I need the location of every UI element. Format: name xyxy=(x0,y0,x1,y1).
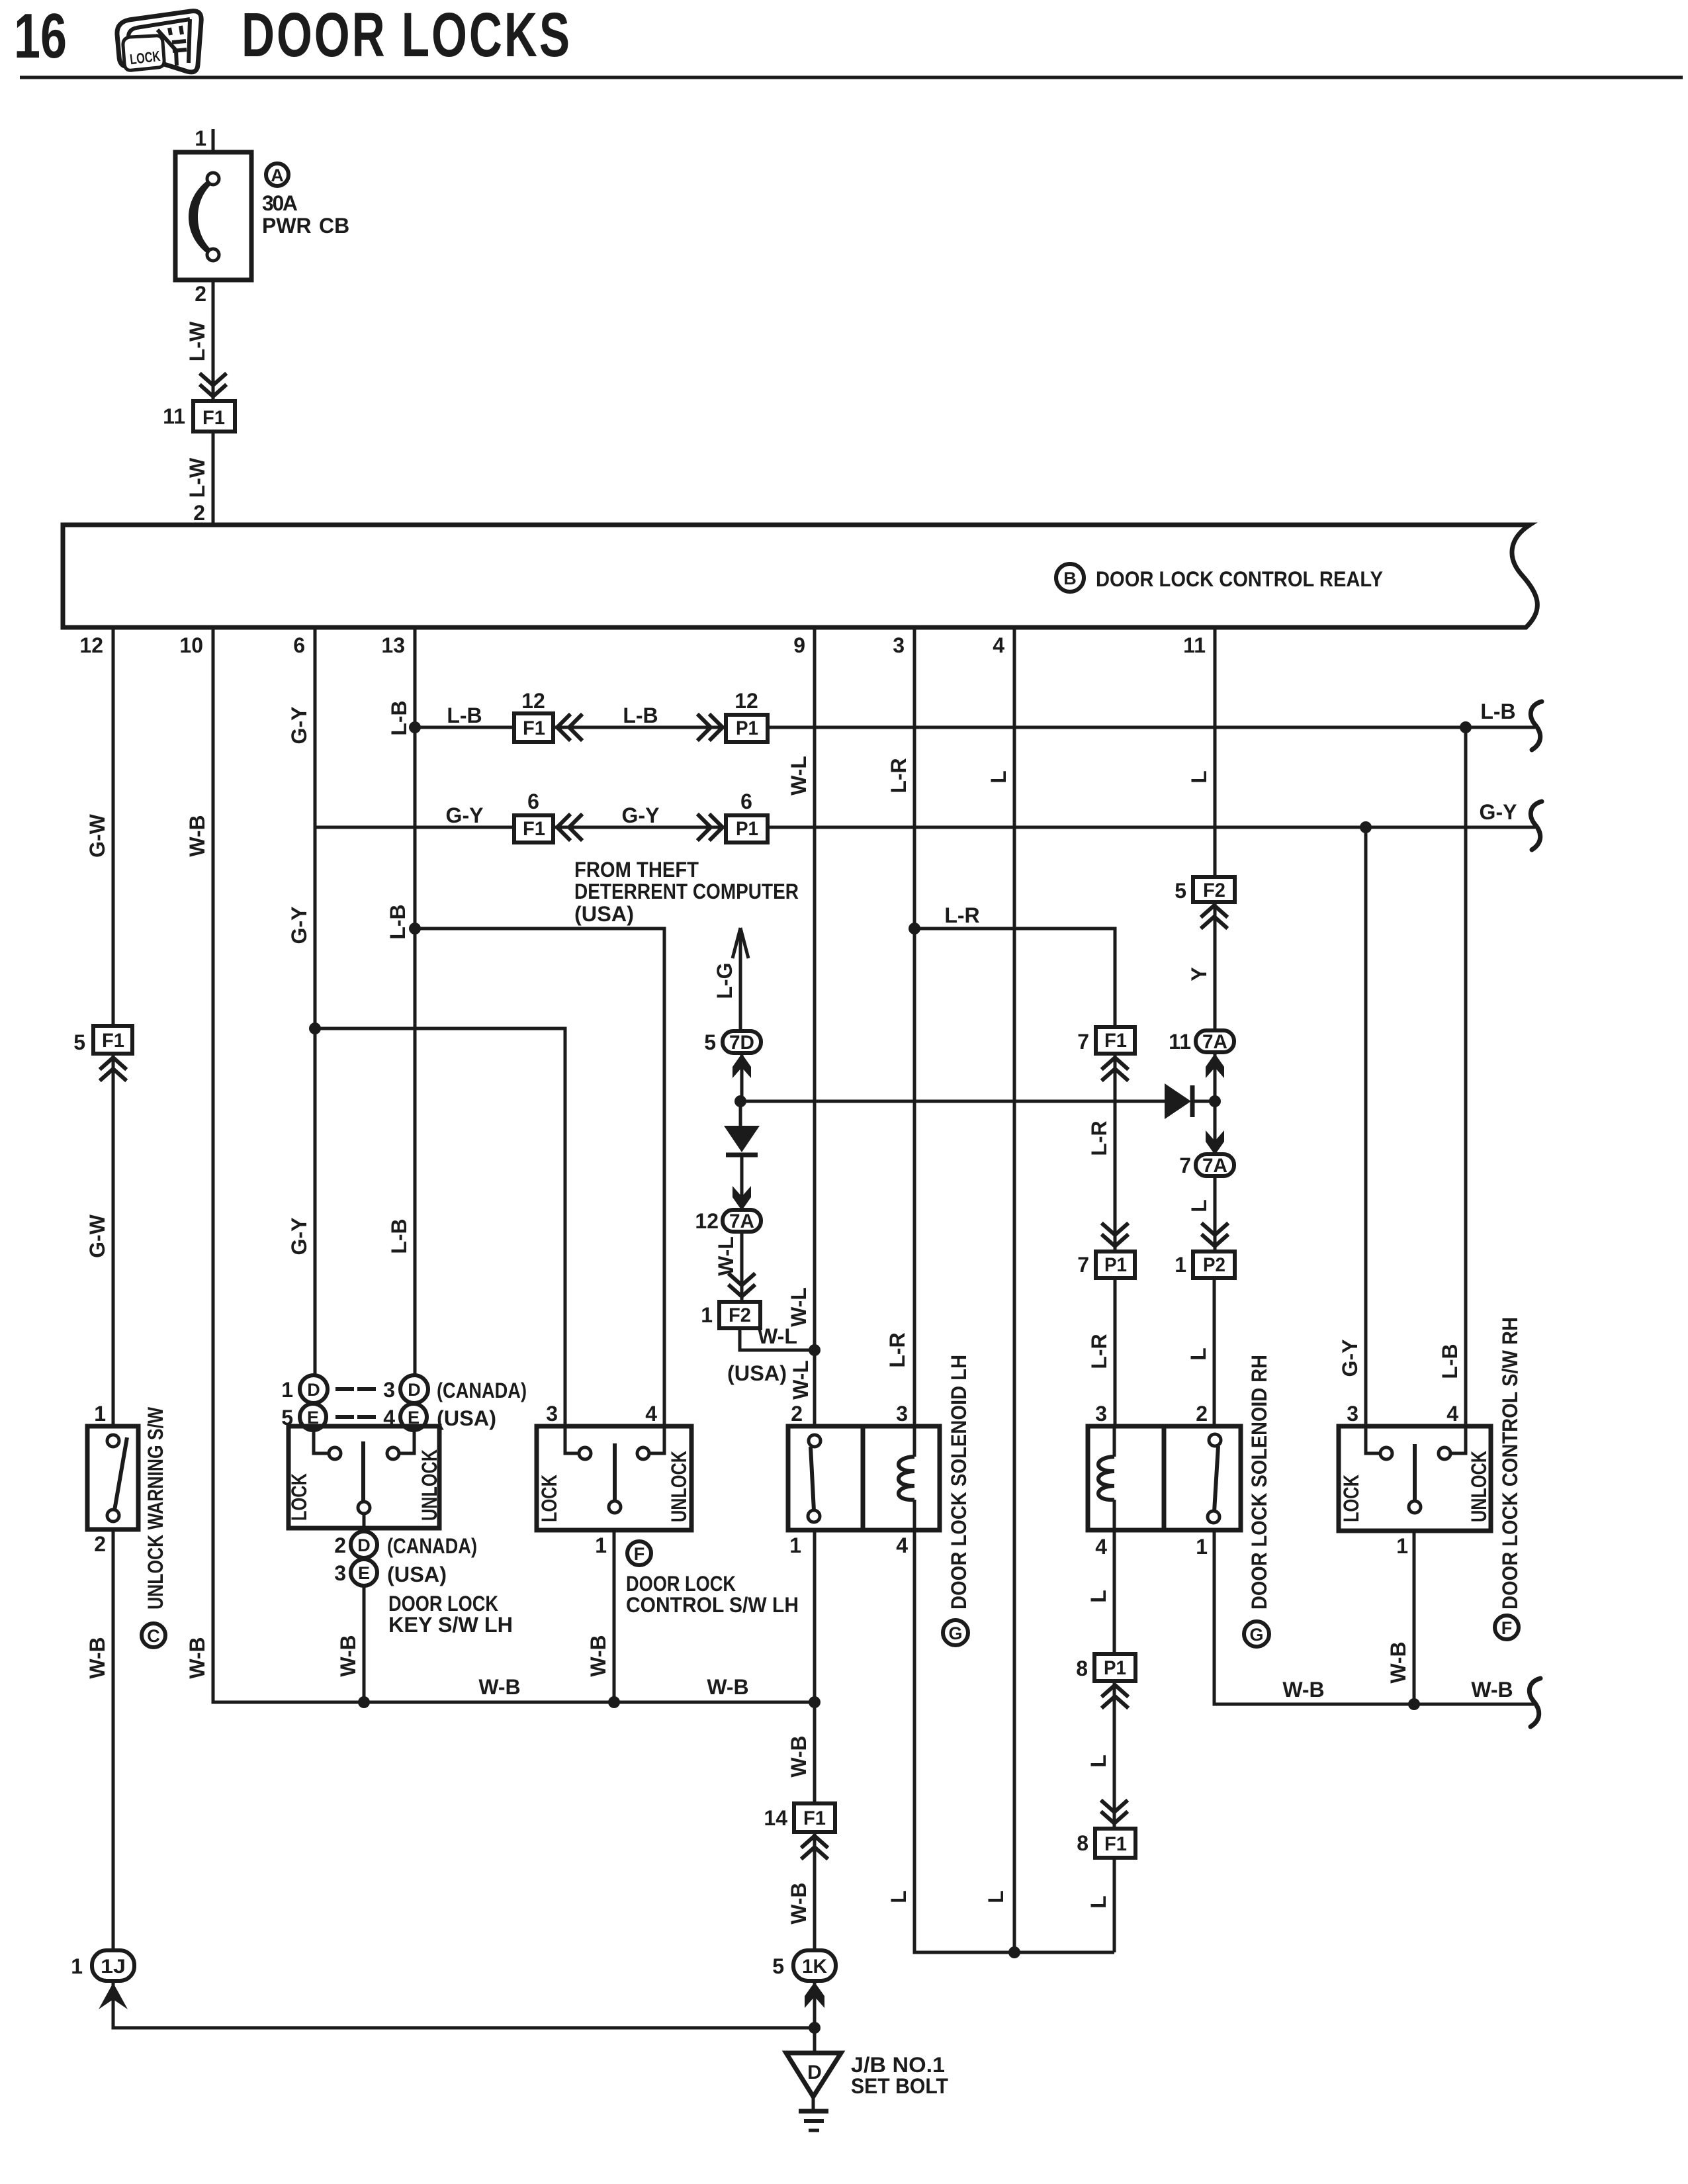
svg-text:LOCK: LOCK xyxy=(1339,1475,1363,1522)
wire pin11 L xyxy=(1214,627,1217,877)
svg-text:L-R: L-R xyxy=(944,903,979,927)
svg-text:11: 11 xyxy=(1169,1030,1191,1054)
wire 7D to junction xyxy=(740,1053,744,1101)
wire pin13 L-B xyxy=(414,627,417,1376)
svg-text:L: L xyxy=(887,1890,911,1903)
svg-text:5: 5 xyxy=(772,1954,784,1978)
svg-text:12: 12 xyxy=(521,689,545,713)
note FROM THEFT DETERRENT COMPUTER (USA) xyxy=(574,858,799,926)
svg-text:6: 6 xyxy=(527,790,539,813)
svg-text:F1: F1 xyxy=(523,717,545,739)
header rule xyxy=(20,76,1683,79)
svg-text:W-B: W-B xyxy=(586,1635,610,1676)
svg-text:CB: CB xyxy=(319,214,349,238)
svg-text:L-R: L-R xyxy=(887,758,911,793)
arrow right into P1(6) xyxy=(699,815,723,839)
connector F1 (6) xyxy=(514,815,553,842)
wire pin6 G-Y xyxy=(314,627,317,1376)
arrow to theft deterrent computer xyxy=(733,928,748,958)
junction ctrl RH pin1 to bus xyxy=(1408,1698,1420,1710)
svg-text:1: 1 xyxy=(701,1303,713,1327)
svg-text:12: 12 xyxy=(79,633,103,657)
svg-text:LOCK: LOCK xyxy=(287,1473,311,1521)
svg-text:F1: F1 xyxy=(1104,1833,1127,1855)
dashes row2 xyxy=(337,1415,374,1419)
connector 7A oval (7) xyxy=(1196,1154,1234,1177)
ground triangle D J/B NO.1 SET BOLT xyxy=(786,2053,841,2130)
svg-text:F1: F1 xyxy=(523,818,545,840)
svg-text:P2: P2 xyxy=(1203,1254,1225,1276)
svg-text:G-Y: G-Y xyxy=(1338,1340,1362,1377)
svg-text:6: 6 xyxy=(293,633,305,657)
svg-text:11: 11 xyxy=(1183,633,1206,657)
wire pin4 L xyxy=(1013,627,1016,1952)
svg-text:4: 4 xyxy=(645,1402,657,1426)
svg-text:11: 11 xyxy=(163,404,185,428)
wire L-B row mid xyxy=(553,726,726,729)
svg-text:P1: P1 xyxy=(1104,1657,1126,1679)
wire L-R between F1 and P1 xyxy=(1114,1054,1117,1251)
svg-text:C: C xyxy=(147,1626,160,1646)
svg-text:UNLOCK: UNLOCK xyxy=(418,1449,441,1521)
svg-text:W-B: W-B xyxy=(1471,1678,1513,1702)
svg-text:16: 16 xyxy=(14,1,67,71)
svg-text:10: 10 xyxy=(179,633,203,657)
wire solenoid LH pin1 to bus xyxy=(813,1530,817,1702)
door lock solenoid RH box xyxy=(1088,1426,1241,1530)
svg-text:L-G: L-G xyxy=(713,962,736,999)
svg-text:3: 3 xyxy=(896,1402,908,1426)
connector F1 (14) xyxy=(794,1803,835,1832)
wire F2 to W-L junction xyxy=(740,1328,815,1350)
svg-text:(USA): (USA) xyxy=(727,1361,787,1385)
component name DOOR LOCK KEY S/W LH xyxy=(388,1592,513,1637)
break symbol W-B xyxy=(1529,1678,1540,1727)
wire pin3 L-R xyxy=(913,627,916,1426)
svg-text:12: 12 xyxy=(695,1209,719,1233)
svg-text:1: 1 xyxy=(195,126,206,150)
svg-text:1: 1 xyxy=(1196,1535,1208,1559)
svg-text:3: 3 xyxy=(334,1561,346,1585)
wire branch to control switch LH pin4 xyxy=(415,929,664,1426)
svg-text:FROM THEFT: FROM THEFT xyxy=(574,858,699,882)
connector 7A oval (11) xyxy=(1196,1030,1234,1053)
circled E below key switch xyxy=(351,1559,377,1586)
svg-text:L-B: L-B xyxy=(387,1218,411,1253)
arrow down into P2(1) xyxy=(1203,1224,1227,1246)
svg-text:L: L xyxy=(1186,1347,1210,1361)
svg-text:CONTROL S/W LH: CONTROL S/W LH xyxy=(626,1593,799,1617)
connector F1 (5) xyxy=(93,1026,132,1054)
svg-text:G-Y: G-Y xyxy=(1480,800,1517,824)
svg-text:G: G xyxy=(948,1623,962,1643)
svg-text:(USA): (USA) xyxy=(437,1406,496,1430)
wire 7A to junction xyxy=(1214,1052,1217,1155)
arrow down into P1(7) xyxy=(1103,1224,1127,1246)
arrow up into F1(14) xyxy=(803,1836,826,1858)
junction L-R branch xyxy=(909,923,920,934)
junction solenoid LH pin1 to bus xyxy=(809,1696,821,1708)
svg-text:W-B: W-B xyxy=(336,1635,360,1676)
arrow left into F1(6) xyxy=(557,815,581,839)
svg-text:7: 7 xyxy=(1077,1030,1089,1054)
svg-text:7D: 7D xyxy=(729,1032,754,1054)
svg-text:D: D xyxy=(307,1380,320,1400)
svg-text:L: L xyxy=(1187,1199,1211,1212)
svg-text:1: 1 xyxy=(281,1378,293,1402)
wire CB feed xyxy=(212,129,215,152)
svg-text:5: 5 xyxy=(1175,879,1186,903)
svg-text:G-W: G-W xyxy=(85,1214,109,1258)
wire pin12 G-W lower xyxy=(112,1054,115,1426)
connector 1K oval xyxy=(793,1950,836,1981)
svg-text:(CANADA): (CANADA) xyxy=(387,1534,477,1558)
circled D key lock xyxy=(300,1375,328,1403)
svg-text:1: 1 xyxy=(94,1402,106,1426)
svg-text:L-B: L-B xyxy=(386,904,410,939)
arrow up into 1J xyxy=(99,1983,128,2009)
wire ctrl LH pin1 to bus xyxy=(613,1530,616,1702)
connector P1 (6) xyxy=(726,815,768,842)
svg-text:L-B: L-B xyxy=(1480,700,1515,723)
connector F2 (5) xyxy=(1193,877,1235,902)
svg-text:F2: F2 xyxy=(1203,880,1225,901)
wire pin12 G-W upper xyxy=(112,627,115,1026)
svg-text:F2: F2 xyxy=(729,1304,751,1326)
connector 7D oval xyxy=(723,1031,761,1054)
wire W-B below warning switch xyxy=(112,1529,115,1950)
wire P1 to solenoid RH pin3 xyxy=(1114,1278,1117,1426)
wire diode to junction RH xyxy=(1192,1100,1215,1103)
svg-text:D: D xyxy=(357,1535,371,1555)
svg-text:P1: P1 xyxy=(1104,1254,1127,1276)
junction key switch to bus xyxy=(358,1696,370,1708)
svg-text:W-L: W-L xyxy=(758,1324,797,1348)
svg-text:L-R: L-R xyxy=(1087,1334,1111,1369)
svg-text:14: 14 xyxy=(764,1806,787,1830)
svg-text:J/B NO.1: J/B NO.1 xyxy=(851,2053,945,2077)
svg-text:F1: F1 xyxy=(202,407,225,429)
arrow down into F1(8) xyxy=(1102,1801,1126,1823)
svg-text:P1: P1 xyxy=(736,818,758,840)
svg-text:1: 1 xyxy=(71,1954,83,1978)
junction ctrl LH pin1 to bus xyxy=(608,1696,620,1708)
unlock warning switch C box xyxy=(87,1426,138,1529)
wire G-Y row right xyxy=(768,826,1535,829)
svg-text:G-Y: G-Y xyxy=(287,907,311,944)
wire branch to control switch LH pin3 xyxy=(315,1028,565,1426)
svg-text:W-B: W-B xyxy=(185,815,209,856)
junction ground bus xyxy=(809,2022,821,2034)
circled E key unlock xyxy=(400,1404,427,1430)
svg-text:L: L xyxy=(987,770,1010,784)
connector 1J oval xyxy=(92,1950,134,1981)
wire P1(8) to F1(8) xyxy=(1113,1681,1116,1829)
connector F2 (1) xyxy=(719,1302,760,1328)
component name DOOR LOCK CONTROL S/W LH xyxy=(626,1572,799,1617)
svg-text:P1: P1 xyxy=(736,717,758,739)
arrow up into 7A(11) xyxy=(1206,1054,1224,1078)
svg-text:W-B: W-B xyxy=(707,1675,748,1699)
junction L-B lower branch xyxy=(409,923,421,934)
svg-text:L-W: L-W xyxy=(185,321,209,361)
circled D below key switch xyxy=(351,1531,377,1558)
svg-text:L: L xyxy=(1087,1590,1110,1603)
svg-text:3: 3 xyxy=(893,633,905,657)
svg-text:4: 4 xyxy=(1446,1402,1458,1426)
svg-text:7A: 7A xyxy=(1202,1031,1227,1053)
connector P2 (1) xyxy=(1193,1251,1235,1278)
arrow down into 7A(12) xyxy=(733,1186,751,1210)
svg-text:G: G xyxy=(1249,1625,1263,1645)
wire diode row horizontal xyxy=(740,1100,1165,1103)
svg-text:8: 8 xyxy=(1077,1831,1088,1855)
svg-text:D: D xyxy=(408,1380,421,1400)
wire L-R branch row xyxy=(914,929,1115,1027)
wire pin9 W-L xyxy=(813,627,817,1426)
svg-text:UNLOCK WARNING S/W: UNLOCK WARNING S/W xyxy=(144,1406,167,1610)
arrow left into F1(12) xyxy=(557,715,581,739)
circled F ctrl RH xyxy=(1495,1615,1519,1639)
wire F1(14) to 1K xyxy=(813,1832,817,1950)
junction W-L xyxy=(809,1344,821,1356)
svg-text:W-B: W-B xyxy=(787,1735,811,1777)
svg-text:W-B: W-B xyxy=(1282,1678,1324,1702)
wire solenoid RH pin1 W-B xyxy=(1214,1530,1534,1704)
wire F1(8) down to bus xyxy=(1113,1858,1116,1952)
svg-text:A: A xyxy=(271,165,284,185)
connector F1 (11) xyxy=(193,401,235,432)
circled B xyxy=(1056,564,1084,592)
svg-text:DOOR LOCK CONTROL REALY: DOOR LOCK CONTROL REALY xyxy=(1096,567,1383,591)
svg-text:3: 3 xyxy=(1095,1402,1107,1426)
svg-text:30A: 30A xyxy=(262,191,298,215)
wire G-Y row mid xyxy=(553,826,726,829)
svg-text:DOOR LOCK SOLENOID RH: DOOR LOCK SOLENOID RH xyxy=(1247,1355,1271,1610)
svg-text:8: 8 xyxy=(1076,1657,1088,1680)
svg-text:G-Y: G-Y xyxy=(287,707,311,745)
junction G-Y branch xyxy=(309,1023,321,1034)
svg-text:1: 1 xyxy=(595,1533,607,1557)
svg-text:G-Y: G-Y xyxy=(446,803,484,827)
arrow up into 1K xyxy=(805,1982,824,2008)
svg-text:DOOR LOCK: DOOR LOCK xyxy=(388,1592,498,1615)
connector P1 (12) xyxy=(726,715,768,742)
connector F1 (12) xyxy=(514,713,553,742)
svg-text:E: E xyxy=(358,1563,370,1583)
svg-text:F1: F1 xyxy=(102,1030,124,1052)
wire L-B row left xyxy=(415,726,514,729)
wire diode to 7A xyxy=(740,1155,744,1210)
arrow into F1 xyxy=(201,375,225,396)
svg-text:L-B: L-B xyxy=(1438,1343,1462,1379)
circled C xyxy=(142,1623,165,1647)
wire P2 to solenoid RH pin2 xyxy=(1213,1278,1216,1426)
arrow up into F1(7) xyxy=(1103,1058,1127,1079)
connector F1 (8) xyxy=(1095,1829,1135,1858)
wire solenoid RH pin4 to P1(8) xyxy=(1113,1530,1116,1654)
svg-text:7: 7 xyxy=(1077,1253,1089,1277)
svg-text:L-B: L-B xyxy=(623,704,658,727)
svg-text:L-R: L-R xyxy=(1087,1120,1111,1156)
connector F1 (7) xyxy=(1096,1027,1135,1054)
circled A xyxy=(266,163,289,186)
svg-text:6: 6 xyxy=(740,790,752,813)
arrow down below 7D xyxy=(733,1054,751,1078)
circled E key lock xyxy=(300,1404,326,1430)
wire solenoid LH pin4 down xyxy=(914,1530,1114,1952)
svg-text:1: 1 xyxy=(1396,1534,1408,1558)
svg-text:KEY S/W LH: KEY S/W LH xyxy=(388,1613,513,1637)
svg-text:7: 7 xyxy=(1179,1154,1191,1177)
svg-text:UNLOCK: UNLOCK xyxy=(1467,1451,1491,1522)
wire ctrl RH pin1 xyxy=(1413,1531,1416,1704)
svg-text:PWR: PWR xyxy=(262,214,312,238)
wire 1K to ground xyxy=(813,1981,817,2053)
svg-text:7A: 7A xyxy=(729,1210,754,1232)
svg-text:7A: 7A xyxy=(1202,1155,1227,1177)
door lock control switch LH box xyxy=(537,1426,691,1530)
wire L-W lower xyxy=(212,432,215,525)
wire G-Y branch RH xyxy=(1364,827,1368,1426)
svg-text:2: 2 xyxy=(1196,1402,1208,1426)
svg-text:2: 2 xyxy=(195,282,206,306)
svg-text:4: 4 xyxy=(993,633,1004,657)
wire L-B branch RH xyxy=(1464,727,1468,1426)
svg-text:B: B xyxy=(1063,569,1077,588)
svg-text:L: L xyxy=(984,1890,1008,1903)
svg-text:4: 4 xyxy=(896,1533,908,1557)
door lock switch icon xyxy=(117,11,201,72)
svg-text:LOCK: LOCK xyxy=(537,1475,561,1522)
svg-text:F: F xyxy=(1501,1618,1513,1638)
wire junction to diode xyxy=(739,1101,742,1127)
svg-text:L-W: L-W xyxy=(185,457,209,498)
wire bus to F1(14) xyxy=(813,1702,817,1803)
svg-text:L-B: L-B xyxy=(387,700,411,735)
diode down xyxy=(724,1126,760,1155)
svg-text:2: 2 xyxy=(193,501,205,525)
svg-text:2: 2 xyxy=(94,1532,106,1556)
circled D key unlock xyxy=(400,1375,428,1403)
wire Y xyxy=(1214,902,1217,1030)
connector P1 (7) xyxy=(1096,1251,1135,1278)
wire W-L below 7A xyxy=(740,1232,744,1302)
svg-text:W-B: W-B xyxy=(185,1637,209,1678)
svg-text:9: 9 xyxy=(793,633,805,657)
wire to ground bus xyxy=(113,1981,815,2028)
junction relay pin4 bottom xyxy=(1008,1946,1020,1958)
arrow right into P1(12) xyxy=(699,715,723,739)
svg-text:D: D xyxy=(807,2062,822,2083)
svg-text:W-L: W-L xyxy=(714,1236,738,1276)
arrow up into P1(8) xyxy=(1103,1685,1127,1707)
connector 7A oval (12) xyxy=(723,1210,761,1232)
svg-text:G-Y: G-Y xyxy=(287,1218,311,1255)
svg-text:13: 13 xyxy=(381,633,405,657)
svg-text:W-B: W-B xyxy=(85,1637,109,1678)
svg-text:G-Y: G-Y xyxy=(622,803,660,827)
door lock key switch LH box xyxy=(289,1426,439,1528)
arrow up into F1(5) xyxy=(101,1058,125,1079)
svg-text:2: 2 xyxy=(791,1402,803,1426)
wire key switch to bus xyxy=(363,1586,366,1702)
wire L below 7A(7) xyxy=(1214,1176,1217,1251)
circled G solenoid LH xyxy=(943,1620,968,1645)
junction L-B to RH branch xyxy=(1460,721,1472,733)
svg-text:3: 3 xyxy=(1347,1402,1358,1426)
svg-text:L: L xyxy=(1087,1754,1110,1768)
svg-text:L: L xyxy=(1187,770,1211,784)
wire G-Y row left xyxy=(315,826,514,829)
svg-text:(USA): (USA) xyxy=(574,902,634,926)
svg-text:F1: F1 xyxy=(1104,1030,1127,1052)
svg-text:Y: Y xyxy=(1187,967,1211,981)
svg-text:DOOR LOCK: DOOR LOCK xyxy=(626,1572,736,1596)
svg-text:5: 5 xyxy=(704,1030,716,1054)
svg-text:SET BOLT: SET BOLT xyxy=(851,2074,948,2098)
door lock solenoid LH box xyxy=(788,1426,940,1530)
break symbol L-B xyxy=(1531,702,1542,750)
arrow down into F2(1) xyxy=(730,1275,754,1297)
svg-text:1: 1 xyxy=(789,1533,801,1557)
svg-text:2: 2 xyxy=(334,1533,346,1557)
door lock control switch RH box xyxy=(1339,1426,1491,1531)
svg-text:1: 1 xyxy=(1175,1253,1186,1277)
svg-text:W-B: W-B xyxy=(1386,1641,1410,1683)
junction G-Y to RH branch xyxy=(1360,821,1372,833)
svg-text:1K: 1K xyxy=(802,1956,827,1978)
svg-text:L-B: L-B xyxy=(447,704,482,727)
svg-text:F1: F1 xyxy=(803,1807,826,1829)
svg-text:W-B: W-B xyxy=(787,1882,811,1924)
svg-text:G-W: G-W xyxy=(85,813,109,858)
wire L-B row right xyxy=(768,726,1535,729)
arrow up into F2(5) xyxy=(1202,905,1226,927)
svg-text:W-B: W-B xyxy=(478,1675,520,1699)
svg-text:L: L xyxy=(1087,1895,1110,1909)
arrow down into 7A(7) xyxy=(1206,1130,1224,1155)
svg-text:W-L: W-L xyxy=(787,1287,811,1327)
svg-text:F: F xyxy=(634,1544,645,1564)
break symbol G-Y xyxy=(1531,801,1542,850)
svg-text:(CANADA): (CANADA) xyxy=(437,1379,527,1402)
circled F ctrl LH xyxy=(627,1541,651,1565)
svg-text:UNLOCK: UNLOCK xyxy=(667,1451,691,1522)
circled G solenoid RH xyxy=(1244,1621,1269,1647)
junction diode row RH xyxy=(1209,1095,1221,1107)
svg-text:(USA): (USA) xyxy=(387,1563,447,1586)
wire L-W upper xyxy=(212,280,215,401)
wire L-G xyxy=(739,928,742,1032)
svg-text:W-L: W-L xyxy=(789,1360,813,1400)
svg-text:3: 3 xyxy=(383,1378,395,1402)
wire lever to D circle xyxy=(363,1514,366,1531)
junction diode row LH xyxy=(734,1095,746,1107)
svg-text:3: 3 xyxy=(546,1402,558,1426)
note J/B NO.1 SET BOLT xyxy=(851,2053,948,2098)
svg-text:5: 5 xyxy=(73,1030,85,1054)
svg-text:DOOR LOCK SOLENOID LH: DOOR LOCK SOLENOID LH xyxy=(947,1355,971,1610)
svg-text:DETERRENT COMPUTER: DETERRENT COMPUTER xyxy=(574,880,799,903)
svg-text:DOOR LOCK CONTROL S/W RH: DOOR LOCK CONTROL S/W RH xyxy=(1498,1317,1522,1610)
svg-text:L-R: L-R xyxy=(885,1332,909,1367)
circuit breaker A 30A PWR CB xyxy=(175,152,251,280)
svg-text:12: 12 xyxy=(734,689,758,713)
diode right xyxy=(1165,1083,1192,1119)
svg-text:1J: 1J xyxy=(101,1956,126,1978)
svg-text:W-L: W-L xyxy=(787,756,811,796)
